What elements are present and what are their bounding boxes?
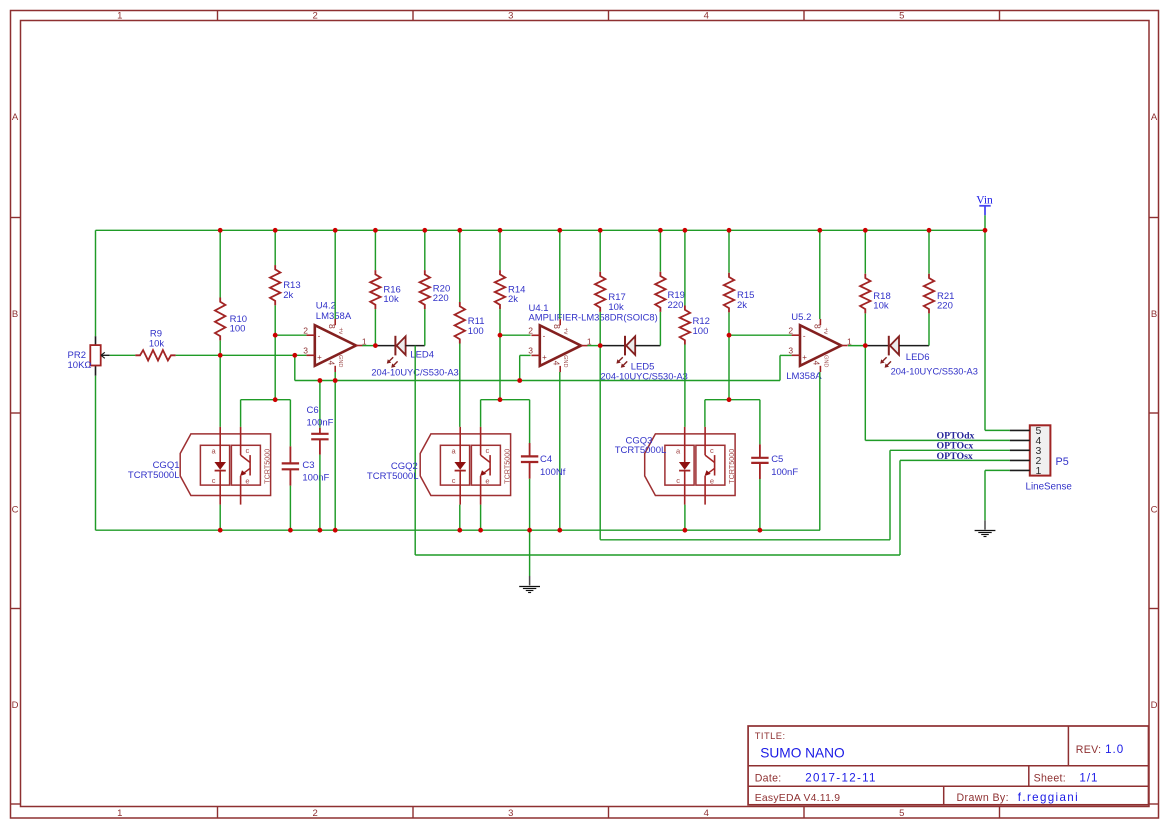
svg-text:TCRT5000L: TCRT5000L <box>128 470 180 481</box>
wire R10 column <box>219 230 221 355</box>
wire Vin column to P5 pin5 <box>985 230 1010 430</box>
wire R21 column top <box>928 230 930 273</box>
label LM358A (U5.2) <box>786 371 822 382</box>
svg-text:2k: 2k <box>283 290 293 301</box>
label LED4 <box>410 350 434 361</box>
svg-text:e: e <box>485 476 489 485</box>
svg-text:1: 1 <box>847 336 852 346</box>
label PR2 10KΩ <box>68 350 92 371</box>
svg-text:8: 8 <box>812 324 822 329</box>
frame row letters <box>12 112 1158 711</box>
svg-text:100: 100 <box>230 324 246 335</box>
svg-text:Sheet:: Sheet: <box>1034 772 1066 784</box>
svg-text:-: - <box>803 331 806 340</box>
label R9 10k <box>149 329 165 350</box>
label R20 220 <box>433 283 450 304</box>
wire Vin power rail <box>96 229 986 231</box>
svg-text:100: 100 <box>468 326 484 337</box>
wire sensor CGQ2 anode to GND <box>459 505 461 531</box>
wire U4.2 power column pin8 <box>334 230 336 319</box>
resistor R18 <box>860 274 870 314</box>
svg-text:220: 220 <box>433 293 449 304</box>
title value f.reggiani <box>1018 791 1079 804</box>
label C3 100nF <box>302 460 329 484</box>
label LED5 <box>631 361 655 372</box>
svg-text:A: A <box>1151 112 1158 123</box>
svg-text:U4.2: U4.2 <box>316 300 336 311</box>
svg-text:REV:: REV: <box>1076 744 1102 756</box>
svg-text:3: 3 <box>528 345 533 355</box>
wire R9 to U4.2 pin3 (reference) <box>176 354 307 356</box>
label C4 100Nf <box>540 454 566 478</box>
svg-text:100nF: 100nF <box>302 472 329 483</box>
svg-text:C: C <box>1151 504 1158 515</box>
svg-text:4: 4 <box>704 10 709 21</box>
title value SUMO NANO <box>760 746 844 761</box>
label R14 2k <box>508 284 525 305</box>
capacitor C6 <box>311 428 328 455</box>
wire U4.1 pin2 <box>500 334 531 336</box>
svg-text:2: 2 <box>303 325 308 335</box>
svg-text:100nF: 100nF <box>307 418 334 429</box>
svg-text:GND: GND <box>562 355 568 367</box>
resistor R15 <box>724 273 734 313</box>
wire LED4 anode to R20 <box>406 309 425 346</box>
LED LED4 <box>387 336 406 368</box>
optocoupler CGQ2 <box>420 427 511 505</box>
svg-text:SUMO NANO: SUMO NANO <box>760 746 844 761</box>
label R18 10k <box>873 291 890 312</box>
wire R17 column and OPTOcx drop <box>599 230 601 540</box>
wire C4 column <box>529 400 531 531</box>
wire sensor CGQ3 anode to GND <box>684 505 686 531</box>
wire net OPTOsx run <box>415 460 1010 555</box>
svg-text:3: 3 <box>508 808 513 819</box>
junction dots Vin rail <box>218 228 988 233</box>
svg-text:A: A <box>12 112 19 123</box>
resistor R16 <box>370 270 380 309</box>
wire U4.2 output to LED4 <box>362 345 395 347</box>
label CGQ3 TCRT5000L <box>615 436 667 457</box>
svg-text:+v: +v <box>337 327 344 335</box>
resistor R14 <box>495 270 505 309</box>
svg-text:C5: C5 <box>771 454 783 465</box>
svg-text:4: 4 <box>327 361 337 366</box>
svg-text:LED6: LED6 <box>906 352 930 363</box>
label net OPTOcx <box>937 441 974 452</box>
resistor R10 <box>215 298 225 341</box>
resistor R9 <box>135 350 175 360</box>
op-amp U5.2 <box>788 319 852 372</box>
wire C5 column <box>759 400 761 531</box>
wire U5.2 pin3 riser <box>780 355 792 380</box>
svg-text:3: 3 <box>508 10 513 21</box>
svg-text:TCRT5000L: TCRT5000L <box>367 471 419 482</box>
wire R14 column <box>499 230 501 399</box>
title label Drawn By: <box>957 792 1009 804</box>
svg-text:U5.2: U5.2 <box>791 312 811 323</box>
capacitor C3 <box>282 446 299 485</box>
svg-text:+v: +v <box>562 328 569 336</box>
resistor R11 <box>455 302 465 344</box>
label R17 10k <box>608 292 625 313</box>
title label Date: <box>755 772 782 784</box>
resistor R13 <box>270 265 280 305</box>
wire U4.1 pin3 riser <box>520 355 531 380</box>
svg-text:OPTOsx: OPTOsx <box>937 451 973 462</box>
svg-text:c: c <box>676 476 680 485</box>
wire R20 column top <box>424 230 426 270</box>
op-amp U4.2 <box>303 319 367 372</box>
op-amp U4.1 <box>528 319 592 372</box>
svg-text:2: 2 <box>313 10 318 21</box>
svg-text:TCRT5000L: TCRT5000L <box>615 445 667 456</box>
svg-text:2017-12-11: 2017-12-11 <box>805 771 876 784</box>
svg-text:LM358A: LM358A <box>786 371 822 382</box>
resistor R21 <box>924 274 934 314</box>
svg-text:100: 100 <box>693 326 709 337</box>
svg-text:220: 220 <box>937 301 953 312</box>
svg-text:TCRT5000: TCRT5000 <box>727 449 736 484</box>
junction dots reference bus <box>318 378 523 383</box>
svg-text:Drawn By:: Drawn By: <box>957 792 1009 804</box>
junction dots GND bus <box>218 528 763 533</box>
svg-text:C4: C4 <box>540 454 552 465</box>
svg-text:100nF: 100nF <box>771 467 798 478</box>
wire Vin symbol to rail <box>984 215 986 230</box>
title value 1.0 <box>1105 743 1124 756</box>
wire pot left column (Vin to PR2, PR2 to GND bus) <box>95 230 97 530</box>
capacitor C5 <box>751 444 768 479</box>
wire CGQ1 collector jog <box>241 400 291 427</box>
label U4.1 AMPLIFIER-LM358DR(SOIC8) <box>529 303 658 322</box>
ground (under C4) <box>519 530 540 592</box>
optocoupler CGQ1 <box>180 427 271 505</box>
connector P5 <box>1010 425 1051 475</box>
title block <box>748 726 1148 805</box>
junction dots op-amp outputs <box>373 343 868 348</box>
svg-text:10k: 10k <box>383 294 399 305</box>
title label EasyEDA V4.11.9 <box>755 793 841 804</box>
wire R11 column <box>459 230 461 427</box>
svg-text:3: 3 <box>788 345 793 355</box>
node Vin <box>976 195 993 216</box>
svg-text:5: 5 <box>899 808 904 819</box>
resistor R17 <box>595 272 605 312</box>
wire U5.2 output to LED6 <box>848 345 889 347</box>
label net OPTOdx <box>937 431 975 442</box>
wire C6 column <box>319 381 321 531</box>
wire GND bus <box>96 529 821 531</box>
svg-text:+v: +v <box>822 327 829 335</box>
label U5.2 <box>791 312 811 323</box>
svg-text:1.0: 1.0 <box>1105 743 1124 756</box>
svg-text:C3: C3 <box>302 460 314 471</box>
wire R13 column <box>274 230 276 399</box>
svg-text:e: e <box>245 476 249 485</box>
LED LED5 <box>616 336 635 368</box>
label net OPTOsx <box>937 451 973 462</box>
junction dots reference wire <box>218 353 297 358</box>
svg-text:-: - <box>318 331 321 340</box>
svg-text:f.reggiani: f.reggiani <box>1018 791 1079 804</box>
svg-text:220: 220 <box>668 300 684 311</box>
svg-text:2: 2 <box>528 325 533 335</box>
label R10 100 <box>230 314 247 335</box>
svg-text:2k: 2k <box>737 300 747 311</box>
wire OPTOsx tap from LED4 anode <box>414 346 416 555</box>
wire net OPTOcx run <box>600 450 1010 540</box>
resistor R12 <box>680 306 690 345</box>
potentiometer PR2 <box>90 336 109 376</box>
svg-text:+: + <box>542 353 547 362</box>
junction dots collector jogs <box>273 397 732 402</box>
label R21 220 <box>937 291 954 312</box>
svg-text:Vin: Vin <box>976 195 993 207</box>
wire U4.1 power column pin8 <box>559 230 561 319</box>
svg-text:8: 8 <box>327 324 337 329</box>
label R16 10k <box>383 284 400 305</box>
svg-text:GND: GND <box>822 355 828 367</box>
title label TITLE: <box>755 731 786 741</box>
svg-text:LineSense: LineSense <box>1026 482 1073 493</box>
label C5 100nF <box>771 454 798 478</box>
wire R15 column <box>728 230 730 399</box>
junction dots inverting inputs <box>273 333 732 338</box>
wire CGQ3 collector jog <box>705 400 760 427</box>
ground (under P5) <box>975 520 996 536</box>
wire U5.2 power column pin8 <box>819 230 821 319</box>
svg-text:4: 4 <box>812 361 822 366</box>
svg-text:2: 2 <box>313 808 318 819</box>
wire LED6 anode to R21 <box>899 313 929 345</box>
label C6 100nF <box>307 405 334 429</box>
optocoupler CGQ3 <box>645 427 736 505</box>
LED LED6 <box>880 336 899 368</box>
label R15 2k <box>737 290 754 311</box>
svg-text:204-10UYC/S530-A3: 204-10UYC/S530-A3 <box>601 371 688 381</box>
svg-text:2k: 2k <box>508 294 518 305</box>
svg-text:10KΩ: 10KΩ <box>68 360 92 371</box>
svg-text:c: c <box>212 476 216 485</box>
title value 1/1 <box>1079 771 1098 784</box>
svg-text:c: c <box>486 446 490 455</box>
title value 2017-12-11 <box>805 771 876 784</box>
svg-text:4: 4 <box>552 361 562 366</box>
wire R18 column and OPTOdx drop <box>864 230 866 440</box>
svg-text:Date:: Date: <box>755 772 782 784</box>
svg-text:c: c <box>246 446 250 455</box>
svg-text:10k: 10k <box>149 338 165 349</box>
pin numbers P5 5 4 3 2 1 <box>1035 425 1041 477</box>
wire LED5 anode to R19 <box>635 312 660 346</box>
svg-text:1: 1 <box>362 336 367 346</box>
wire U4.2 pin4 to GND bus <box>334 372 336 530</box>
label R19 220 <box>668 290 685 311</box>
wire U4.2 pin2 <box>275 334 306 336</box>
svg-text:TCRT5000: TCRT5000 <box>262 449 271 484</box>
svg-text:e: e <box>710 476 714 485</box>
wire U4.1 pin4 to GND bus <box>559 372 561 530</box>
title label Sheet: <box>1034 772 1066 784</box>
svg-text:GND: GND <box>337 355 343 367</box>
wire R19 column top <box>659 230 661 271</box>
svg-text:10k: 10k <box>608 302 624 313</box>
svg-text:5: 5 <box>899 10 904 21</box>
wire net OPTOdx run <box>865 439 1010 441</box>
wire CGQ2 emitter to GND <box>480 505 482 531</box>
svg-text:c: c <box>452 476 456 485</box>
label LineSense <box>1026 482 1073 493</box>
label CGQ1 TCRT5000L <box>128 460 180 481</box>
label P5 <box>1056 456 1069 468</box>
label U4.2 LM358A <box>316 300 352 322</box>
label 204-10UYC/S530-A3 (LED4) <box>371 367 458 377</box>
svg-text:EasyEDA V4.11.9: EasyEDA V4.11.9 <box>755 793 841 804</box>
svg-text:1: 1 <box>117 808 122 819</box>
label R11 100 <box>468 316 485 337</box>
wire R16 column <box>374 230 376 345</box>
svg-text:+: + <box>802 353 807 362</box>
wire reference bus drop <box>295 355 780 380</box>
svg-text:C6: C6 <box>307 405 319 416</box>
wire R12 column <box>684 230 686 427</box>
svg-text:AMPLIFIER-LM358DR(SOIC8): AMPLIFIER-LM358DR(SOIC8) <box>529 312 658 323</box>
svg-text:+: + <box>317 353 322 362</box>
label 204-10UYC/S530-A3 (LED5) <box>601 371 688 381</box>
capacitor C4 <box>521 443 538 479</box>
svg-text:10k: 10k <box>873 301 889 312</box>
svg-text:100Nf: 100Nf <box>540 467 566 478</box>
wire U4.1 output to LED5 <box>587 345 624 347</box>
svg-text:B: B <box>12 309 18 320</box>
wire U5.2 pin4 to GND bus <box>819 372 821 530</box>
label R12 100 <box>693 316 710 337</box>
label 204-10UYC/S530-A3 (LED6) <box>891 366 978 376</box>
svg-text:-: - <box>543 331 546 340</box>
wire C3 column <box>289 400 291 531</box>
svg-text:8: 8 <box>552 324 562 329</box>
wire CGQ2 collector jog <box>481 400 530 427</box>
svg-text:1: 1 <box>1035 465 1041 477</box>
svg-text:TITLE:: TITLE: <box>755 731 786 741</box>
svg-text:TCRT5000: TCRT5000 <box>502 449 511 484</box>
svg-text:204-10UYC/S530-A3: 204-10UYC/S530-A3 <box>891 366 978 376</box>
svg-text:D: D <box>12 700 19 711</box>
resistor R19 <box>655 272 665 312</box>
wire P5 pin1 to ground <box>985 470 1010 520</box>
label LED6 <box>906 352 930 363</box>
svg-text:LED4: LED4 <box>410 350 434 361</box>
svg-text:1: 1 <box>117 10 122 21</box>
svg-text:1/1: 1/1 <box>1079 771 1098 784</box>
svg-text:P5: P5 <box>1056 456 1069 468</box>
wire PR2 wiper to R9 <box>110 354 136 356</box>
svg-text:c: c <box>710 446 714 455</box>
svg-text:D: D <box>1151 700 1158 711</box>
frame column numbers <box>117 10 904 819</box>
svg-text:B: B <box>1151 309 1157 320</box>
svg-text:2: 2 <box>788 325 793 335</box>
wire sensor CGQ1 anode column <box>219 355 221 530</box>
svg-text:4: 4 <box>704 808 709 819</box>
label R13 2k <box>283 280 300 301</box>
label CGQ2 TCRT5000L <box>367 461 419 482</box>
wire U5.2 pin2 <box>729 334 792 336</box>
svg-text:3: 3 <box>303 345 308 355</box>
svg-text:LM358A: LM358A <box>316 311 352 322</box>
svg-text:C: C <box>12 504 19 515</box>
title label REV: <box>1076 744 1102 756</box>
resistor R20 <box>420 270 430 309</box>
